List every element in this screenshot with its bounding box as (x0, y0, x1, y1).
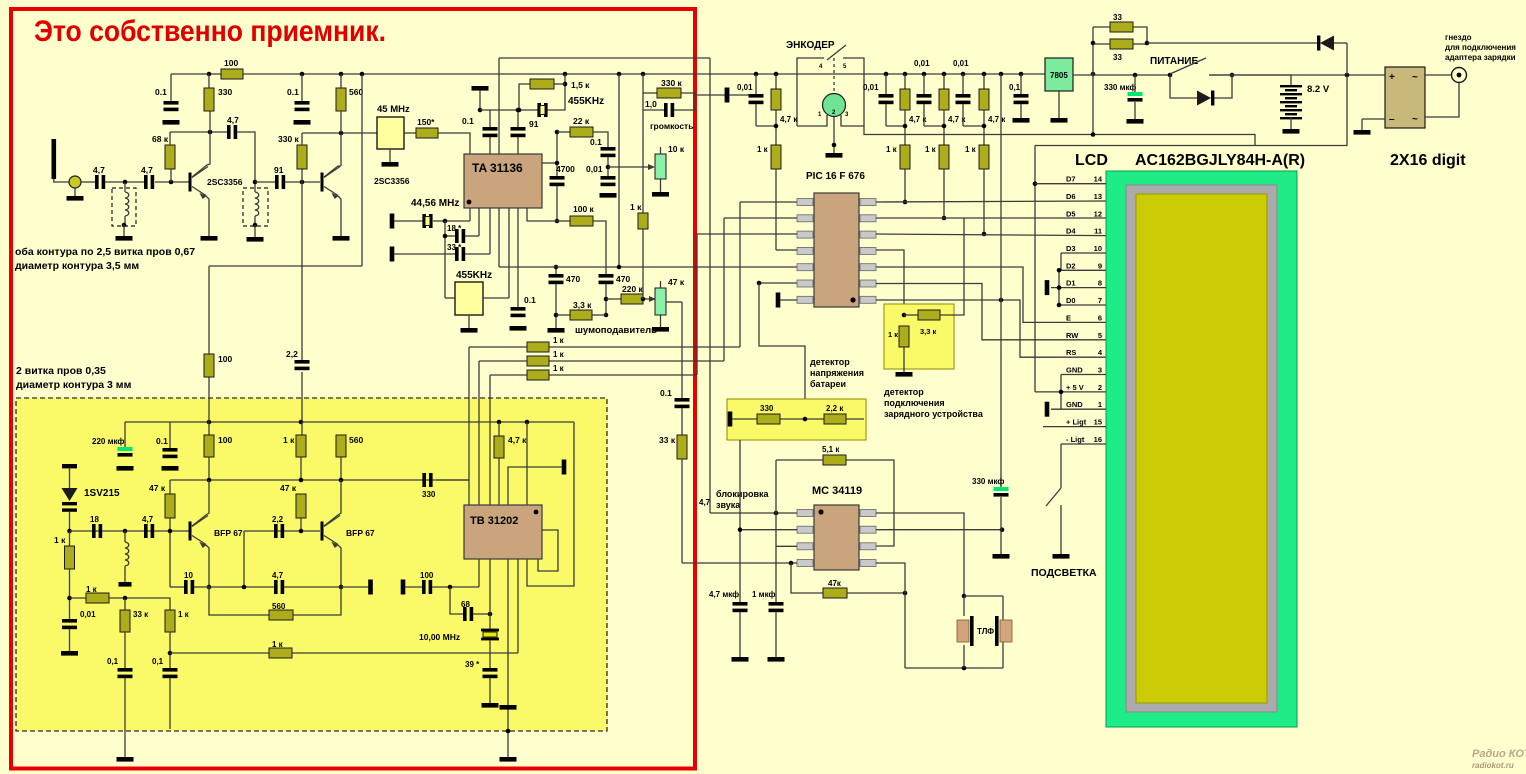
wire TLF right side (1002, 596, 1004, 668)
wire (465, 235, 479, 237)
ground (47k pot) (652, 327, 669, 332)
resistor 4,7 к (c) (939, 89, 949, 110)
wire row3 (490, 374, 697, 376)
MC34119 right pins (860, 510, 876, 517)
wire 5,1k left (776, 459, 823, 461)
encoder (rotary) (823, 94, 846, 117)
wire (169, 480, 171, 494)
junction R2/330mkf stem (1000, 527, 1005, 532)
svg-text:1 к: 1 к (178, 610, 190, 619)
resistor 3,3 к (570, 310, 592, 320)
svg-text:8: 8 (1098, 279, 1102, 288)
ground (0,1A) (117, 757, 134, 762)
wire power rail a (1073, 74, 1170, 76)
svg-text:radiokot.ru: radiokot.ru (1472, 761, 1514, 770)
wire LCD +Ligt (1043, 426, 1106, 428)
wire row2 to TB upper (478, 361, 480, 398)
resistor 100 к (570, 216, 593, 226)
junction power x=1347 (1345, 73, 1350, 78)
wire TA pin b1 (469, 208, 471, 221)
svg-text:ПИТАНИЕ: ПИТАНИЕ (1150, 56, 1198, 67)
arrow to 10k pot (608, 166, 650, 168)
wire backlight (1060, 444, 1062, 488)
capacitor 0.1 (stage2 decoupling) (295, 101, 310, 105)
resistor 33 к (osc) (120, 610, 130, 632)
wire (885, 104, 887, 126)
junction pair c (942, 124, 947, 129)
MC34119 left pins (797, 510, 813, 517)
svg-text:11: 11 (1094, 227, 1102, 236)
wire TA out (542, 162, 557, 164)
wire MC R2 (876, 529, 1002, 531)
svg-text:330 к: 330 к (661, 78, 683, 88)
wire 47k wiper (666, 301, 682, 303)
bridge rectifier (1385, 67, 1425, 128)
junction bus x=1001 (999, 72, 1004, 77)
capacitor 0,1 (osc B) (163, 668, 178, 672)
wire (1020, 74, 1022, 94)
capacitor 4,7 (osc out) (274, 580, 278, 594)
svg-text:1 к: 1 к (86, 585, 98, 594)
wire (780, 418, 824, 420)
svg-text:7805: 7805 (1050, 71, 1068, 80)
tank circuit L2 (dashed) (243, 188, 268, 226)
inductor L1 (125, 182, 129, 225)
wire power rail b (1209, 74, 1385, 76)
microcontroller U3 PIC 16 F 676 (814, 193, 859, 307)
svg-text:MC 34119: MC 34119 (812, 485, 862, 497)
wire (1361, 119, 1363, 130)
svg-text:470: 470 (566, 274, 580, 284)
wire (1093, 43, 1110, 45)
wire x740 column (739, 440, 741, 602)
svg-text:15: 15 (1094, 418, 1102, 427)
wire (124, 632, 126, 668)
capacitor 330 мкф (power) (electrolytic) (1128, 92, 1143, 96)
svg-text:1,0: 1,0 (645, 99, 657, 109)
svg-text:1 мкф: 1 мкф (752, 590, 776, 599)
svg-text:громкость: громкость (650, 121, 693, 131)
wire (963, 596, 965, 616)
wire 560 par right (293, 587, 341, 615)
wire (340, 111, 342, 166)
svg-text:GND: GND (1066, 400, 1083, 409)
op-amp U2 TB 31202 (mixer IC) (464, 505, 542, 559)
svg-text:330 мкф: 330 мкф (1104, 83, 1136, 92)
wire (775, 74, 777, 89)
wire Q3 collector (192, 480, 209, 526)
wire (404, 132, 416, 134)
junction TLF top (962, 594, 967, 599)
wire charge det up (940, 218, 964, 315)
junction d/D (982, 232, 987, 237)
battery 8.2 V (1280, 85, 1302, 87)
terminal (battery sense) (728, 412, 733, 427)
tap bar L3 (119, 582, 132, 587)
wire LCD D1 (1051, 287, 1106, 289)
junction power x=1170 (1168, 73, 1173, 78)
svg-text:диаметр контура 3 мм: диаметр контура 3 мм (16, 379, 132, 391)
resistor 560 (Q2 collector) (336, 88, 346, 111)
wire TA pin vertical x499 (498, 58, 500, 154)
wire (517, 137, 519, 154)
wire PIC L6 (759, 282, 797, 284)
wire (465, 253, 490, 255)
svg-text:D4: D4 (1066, 227, 1076, 236)
resistor 47к (feedback) (823, 588, 847, 598)
svg-text:2,2 к: 2,2 к (826, 404, 844, 413)
wire to diode (1147, 42, 1318, 44)
svg-text:4,7: 4,7 (227, 115, 239, 125)
ground (bridge) (1354, 130, 1371, 135)
capacitor 0,01 (c) (917, 94, 932, 98)
svg-text:4,7: 4,7 (93, 165, 105, 175)
wire mute line top (499, 57, 710, 59)
svg-text:D2: D2 (1066, 261, 1076, 270)
wire row2 to TB (478, 398, 480, 505)
svg-text:RS: RS (1066, 348, 1076, 357)
junction bus x=963 (961, 72, 966, 77)
ground (0,1) (1013, 118, 1030, 123)
ground (battery) (1283, 129, 1300, 134)
svg-text:TA 31136: TA 31136 (472, 161, 523, 175)
wire (301, 133, 303, 145)
wire to TB pin (292, 652, 518, 654)
wire 22k column (556, 132, 558, 176)
svg-text:330: 330 (218, 87, 232, 97)
svg-text:100 к: 100 к (573, 204, 595, 214)
wire LCD +5V (1035, 391, 1106, 393)
svg-text:33 *: 33 * (447, 243, 462, 252)
svg-text:1 к: 1 к (757, 145, 769, 154)
junction 22k left (555, 130, 560, 135)
svg-text:91: 91 (274, 165, 284, 175)
capacitor 68 (463, 607, 467, 621)
junction L2 bottom (253, 223, 258, 228)
wire to PIC pin (904, 169, 906, 202)
junction bus x=643 (641, 72, 646, 77)
antenna (52, 139, 57, 179)
wire 33 right top (1133, 27, 1147, 43)
svg-text:8.2 V: 8.2 V (1307, 84, 1330, 95)
junction 470 left top (554, 265, 559, 270)
resistor 47 к (Q4) (296, 494, 306, 518)
wire (962, 74, 964, 94)
ground (charge det) (896, 372, 913, 377)
wire (1290, 117, 1292, 129)
junction 33 left (1091, 41, 1096, 46)
junction feedback (789, 561, 794, 566)
ground (455KHz) (461, 328, 478, 333)
ground (TB pin) (500, 705, 517, 710)
svg-text:1 к: 1 к (630, 202, 642, 212)
wire PIC R3 to LCD D4 (876, 234, 1106, 236)
svg-text:1 к: 1 к (886, 145, 898, 154)
battery voltage detector box (727, 399, 866, 440)
capacitor 91 (coupling) (275, 175, 279, 189)
wire TA pin b5 (508, 208, 510, 298)
ground (39*) (482, 703, 499, 708)
wire (340, 74, 342, 88)
terminal (TB aux) (562, 460, 567, 475)
wire 1,5k left (519, 84, 530, 110)
TA31136 pin1 mark (467, 200, 472, 205)
svg-text:12: 12 (1094, 209, 1102, 218)
svg-text:39 *: 39 * (465, 660, 480, 669)
junction Q3 emitter (207, 585, 212, 590)
capacitor 4700 (550, 176, 565, 180)
transistor Q3 BFP 67 (189, 522, 192, 541)
junction D7 feed (1033, 181, 1038, 186)
svg-text:1SV215: 1SV215 (84, 488, 120, 499)
svg-text:AC162BGJLY84H-A(R): AC162BGJLY84H-A(R) (1135, 152, 1305, 169)
wire (69, 531, 71, 546)
wire Q1 collector node (170, 131, 227, 133)
wire encoder pin3 (841, 115, 864, 126)
wire (1134, 102, 1136, 119)
wire PIC L1 (740, 201, 797, 203)
ground (0.1 stage1) (163, 120, 180, 125)
terminal (volume out) (725, 88, 730, 103)
svg-text:RW: RW (1066, 331, 1079, 340)
resistor 68 к (165, 145, 175, 169)
junction divider mid (803, 417, 808, 422)
wire (556, 314, 570, 316)
resistor 1 к (osc) (296, 435, 306, 457)
arrow to 47k pot (643, 298, 650, 300)
wire (498, 458, 500, 505)
junction bus x=1093 (1091, 72, 1096, 77)
svg-text:D0: D0 (1066, 296, 1076, 305)
resistor 220 к (621, 294, 643, 304)
wire 560 par left (209, 587, 269, 615)
ground (7805) (1051, 118, 1068, 123)
svg-text:47 к: 47 к (668, 277, 685, 287)
wire to 0,01 (729, 94, 756, 96)
switch ПИТАНИЕ (1170, 58, 1206, 74)
junction gnd bracket (1059, 390, 1064, 395)
transistor Q2 2SC3356 (321, 173, 324, 192)
wire (300, 518, 302, 531)
wire (606, 298, 621, 300)
wire row2 (479, 360, 724, 362)
wire to PIC pin (943, 169, 945, 218)
wire L3 to row3 (696, 234, 698, 375)
wire (517, 110, 519, 127)
capacitor 330 мкф (b) (electrolytic) (994, 487, 1009, 491)
wire encoder pin1 (797, 115, 827, 126)
svg-text:1 к: 1 к (54, 535, 66, 545)
wire 1,5k right (554, 83, 565, 85)
connector (charger jack) (1452, 68, 1467, 83)
wire TB pin x479 (478, 559, 480, 587)
wire (963, 645, 965, 668)
junction bus x=905 (903, 72, 908, 77)
wire MC R1 to TLF (876, 513, 964, 596)
junction power x=1135 (1133, 73, 1138, 78)
svg-text:100: 100 (218, 435, 232, 445)
resistor 1,5 к (530, 79, 554, 89)
junction c/D (942, 216, 947, 221)
wire (489, 137, 491, 154)
junction 1k row out (168, 651, 173, 656)
junction mute/5,1k net (774, 511, 779, 516)
svg-text:45 MHz: 45 MHz (377, 104, 410, 115)
wire (1058, 91, 1060, 118)
wire (660, 147, 662, 154)
capacitor 0.1 (osc) (163, 448, 178, 452)
capacitor 0,01 (tune) (62, 619, 77, 623)
wire (169, 422, 171, 448)
wire LCD GND1 (1051, 408, 1106, 410)
junction pair a (774, 124, 779, 129)
capacitor 0,1 (osc A) (118, 668, 133, 672)
wire MC R4 output (876, 563, 905, 668)
wire 22k right (593, 132, 608, 147)
wire (904, 110, 906, 145)
svg-text:9: 9 (1098, 261, 1102, 270)
terminal (gnd ref) (1045, 402, 1050, 417)
svg-text:диаметр контура 3,5 мм: диаметр контура 3,5 мм (15, 260, 139, 272)
terminal (osc out b) (401, 580, 406, 595)
capacitor 0,01 (pic in) (749, 94, 764, 98)
svg-text:1 к: 1 к (553, 336, 565, 345)
wire (81, 181, 95, 183)
wire net x362 (361, 74, 363, 266)
wire 33 right bottom (1133, 43, 1147, 45)
wire (557, 131, 570, 133)
wire (642, 229, 644, 299)
wire PIC R4 to charge det (876, 250, 904, 315)
wire jack return (1425, 83, 1459, 117)
capacitor 0,01 (b) (879, 94, 894, 98)
svg-text:шумоподавитель: шумоподавитель (575, 325, 657, 336)
filter 455KHz (455, 282, 483, 315)
svg-text:4,7 к: 4,7 к (988, 115, 1006, 124)
svg-text:для подключения: для подключения (1445, 43, 1516, 52)
wire (983, 74, 985, 89)
wire (489, 678, 491, 703)
wire (903, 347, 905, 372)
wire tune row (109, 598, 170, 610)
junction Q1 collector (208, 130, 213, 135)
capacitor 0.1 (TA bypass) (511, 307, 526, 311)
svg-text:0.1: 0.1 (524, 295, 536, 305)
svg-text:2SC3356: 2SC3356 (374, 176, 410, 186)
junction 3,3k right (604, 313, 609, 318)
wire (660, 281, 662, 288)
svg-text:18 *: 18 * (447, 224, 462, 233)
wire TB pin x518 (517, 559, 519, 653)
resistor 1 к (charge det) (899, 326, 909, 347)
svg-text:детектор: детектор (810, 357, 850, 367)
svg-text:оба контура по 2,5 витка пров: оба контура по 2,5 витка пров 0,67 (15, 246, 195, 258)
junction tune node (67, 596, 72, 601)
wire PIC R5 to LCD E (876, 267, 1106, 322)
wire Q4 emitter (338, 545, 341, 587)
wire (340, 457, 342, 480)
wire to PIC pin (983, 169, 985, 234)
wire Q4 collector (324, 480, 341, 526)
wire (607, 157, 609, 176)
svg-text:LCD: LCD (1075, 152, 1108, 169)
svg-text:гнездо: гнездо (1445, 33, 1472, 42)
svg-text:2SC3356: 2SC3356 (207, 177, 243, 187)
wire (433, 220, 470, 222)
resistor 100 (osc) (204, 435, 214, 457)
wire MC L2 (740, 529, 797, 531)
wire (489, 640, 491, 668)
junction bus x=924 (922, 72, 927, 77)
wire bypass right (1214, 75, 1232, 98)
wire crystal455 row (480, 109, 539, 111)
svg-text:220 мкф: 220 мкф (92, 437, 124, 446)
svg-text:5,1 к: 5,1 к (822, 445, 840, 454)
svg-text:Это собственно приемник.: Это собственно приемник. (34, 15, 386, 48)
wire (642, 74, 644, 110)
wire LCD D2 (1059, 269, 1106, 271)
svg-text:4,7 к: 4,7 к (780, 115, 798, 124)
wire base row 1 (70, 530, 190, 532)
svg-text:0.1: 0.1 (590, 137, 602, 147)
junction tank2 top (253, 180, 258, 185)
junction crystal top (488, 612, 493, 617)
LCD module (green body) (1106, 171, 1297, 727)
wire x619 net (618, 74, 620, 267)
junction 1k/47k (299, 478, 304, 483)
ground (encoder) (826, 153, 843, 158)
wire (284, 586, 369, 588)
wire (643, 109, 664, 111)
ground (10k pot) (652, 192, 669, 197)
svg-text:~: ~ (1412, 72, 1418, 83)
wire (285, 181, 320, 183)
wire LCD D3 (1061, 252, 1106, 254)
svg-text:68 к: 68 к (152, 134, 169, 144)
wire (405, 586, 422, 588)
wire (605, 284, 607, 315)
resistor 4,7 к (a) (771, 89, 781, 110)
junction D2 (1057, 268, 1062, 273)
ground (45MHz) (382, 162, 399, 167)
resistor 560 (parallel) (269, 610, 293, 620)
wire (194, 586, 274, 588)
wire feedback right (847, 592, 905, 594)
svg-text:4,7 к: 4,7 к (508, 435, 527, 445)
wire mute line down (709, 58, 711, 513)
wire crystal to bus (547, 74, 565, 110)
svg-text:блокировка: блокировка (716, 489, 770, 499)
wire (445, 297, 455, 299)
junction squelch RC (604, 297, 609, 302)
svg-text:батареи: батареи (810, 379, 846, 389)
ground (220мкф) (117, 466, 134, 471)
resistor 1 к (d) (979, 145, 989, 169)
wire (681, 93, 695, 95)
wire TA pin b6 (517, 208, 519, 307)
wire +5V distribution lower (1035, 145, 1347, 147)
capacitor 2,2 (osc) (274, 524, 278, 538)
wire MC L4 (audio in) (682, 562, 797, 564)
wire MC L3 (776, 545, 797, 547)
resistor 47 к (Q3) (165, 494, 175, 518)
wire bypass left (1170, 75, 1197, 98)
junction osc bus x=499 (497, 420, 502, 425)
junction coil top (123, 529, 128, 534)
capacitor 33* (455, 247, 459, 261)
wire +5V distribution upper (864, 126, 1255, 146)
wire pair d (963, 125, 984, 127)
